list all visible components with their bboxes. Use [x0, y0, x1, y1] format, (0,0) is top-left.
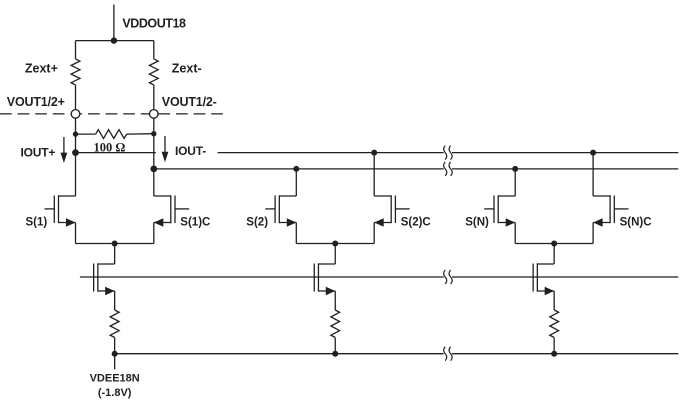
- node: 100 ohm right tap: [151, 131, 156, 136]
- transistor switch S(2)C (right of pair): [374, 195, 409, 243]
- wire: right branch VOUT node down to switch drain: [153, 118, 155, 196]
- resistor: cell 3 degeneration: [550, 310, 559, 338]
- wire: cell 2 tail down to cascode drain: [334, 244, 336, 265]
- svg-text:VOUT1/2-: VOUT1/2-: [162, 95, 217, 109]
- resistor: cell 1 degeneration: [110, 310, 119, 338]
- annotation arrow IOUT-: [162, 136, 169, 162]
- transistor: cell 2 cascode current source: [314, 263, 335, 295]
- transistor: cell 3 cascode current source: [533, 263, 554, 295]
- wire: VDEE18N rail right of break: [452, 353, 678, 355]
- svg-text:S(N)C: S(N)C: [620, 216, 652, 228]
- wire: cell 3 right branch from IOUT+ rail to switch drain: [592, 153, 594, 196]
- wire: Zext- to VOUT1/2- node: [153, 85, 155, 114]
- transistor switch S(1)C (right of pair): [154, 195, 189, 243]
- svg-text:VDDOUT18: VDDOUT18: [122, 17, 186, 31]
- break symbol on IOUT+ rail: [444, 146, 453, 160]
- svg-text:S(2): S(2): [246, 216, 268, 228]
- wire: VDEE18N supply stub: [114, 354, 116, 370]
- node: cell 2 tail junction: [332, 241, 338, 247]
- svg-text:Zext+: Zext+: [25, 62, 58, 76]
- wire: left branch VOUT node down to switch drain: [75, 118, 77, 196]
- wire: IOUT+ rail right of break: [452, 152, 678, 154]
- node: cell 2 right branch on IOUT+ rail: [371, 150, 377, 156]
- svg-text:Zext-: Zext-: [172, 62, 202, 76]
- wire: cell 3 left branch from IOUT- rail to switch drain: [514, 169, 516, 196]
- node: VDDOUT18 junction: [111, 37, 117, 43]
- wire: IOUT- rail from node to break: [154, 168, 444, 170]
- wire: cell 2 resistor to VDEE rail: [334, 338, 336, 354]
- wire: cell 3 resistor to VDEE rail: [553, 338, 555, 354]
- wire: top horizontal between Zext branches: [76, 40, 154, 42]
- wire: right branch VDD to Zext-: [153, 41, 155, 59]
- wire: IOUT- rail right of break: [452, 168, 678, 170]
- wire: cell 2 right branch from IOUT+ rail to switch drain: [373, 153, 375, 196]
- transistor: cell 1 cascode current source: [94, 263, 115, 295]
- wire: cell 3 tail down to cascode drain: [553, 244, 555, 265]
- node: cell 2 on VDEE rail: [332, 351, 338, 357]
- wire: cell 2 tail: [296, 243, 374, 245]
- break symbol on bias rail: [444, 270, 453, 284]
- svg-text:IOUT-: IOUT-: [175, 144, 206, 158]
- node: IOUT- rail start junction: [150, 166, 157, 173]
- resistor Zext+: [71, 59, 80, 85]
- wire: cell 2 cascode source down to resistor: [334, 291, 336, 310]
- node: cell 3 tail junction: [551, 241, 557, 247]
- node: cell 1 tail junction: [112, 241, 118, 247]
- svg-text:S(1)C: S(1)C: [180, 216, 210, 228]
- annotation arrow IOUT+: [61, 137, 68, 163]
- svg-text:(-1.8V): (-1.8V): [98, 387, 132, 399]
- node: cell 1 on VDEE rail: [112, 351, 118, 357]
- svg-text:S(2)C: S(2)C: [401, 216, 431, 228]
- wire: cell 1 tail: [76, 243, 154, 245]
- wire: IOUT+ rail segment from node to annotation gap: [76, 152, 156, 154]
- break symbol on VDEE18N rail: [444, 347, 453, 361]
- svg-text:VDEE18N: VDEE18N: [90, 373, 140, 385]
- wire: cell 3 tail: [515, 243, 593, 245]
- svg-text:S(1): S(1): [26, 216, 48, 228]
- node: IOUT+ rail start junction: [72, 149, 79, 156]
- wire: VDDOUT18 supply lead: [113, 5, 115, 41]
- wire: cascode gate bias rail left of break: [80, 276, 444, 278]
- wire: cascode gate bias rail right of break: [452, 276, 678, 278]
- node: 100 ohm left tap: [73, 131, 78, 136]
- wire: cell 1 tail down to cascode drain: [114, 244, 116, 265]
- node: cell 3 right branch on IOUT+ rail: [590, 150, 596, 156]
- transistor switch S(2) (left of pair): [265, 195, 296, 243]
- wire: cell 1 resistor to VDEE rail: [114, 338, 116, 354]
- node: cell 3 left branch on IOUT- rail: [512, 166, 518, 172]
- wire: left branch VDD to Zext+: [75, 41, 77, 59]
- wire: Zext+ to VOUT1/2+ node: [75, 85, 77, 114]
- transistor switch S(N)C (right of pair): [593, 195, 628, 243]
- svg-text:IOUT+: IOUT+: [21, 145, 56, 159]
- dashed output reference line: [0, 113, 228, 115]
- node VOUT1/2- (open circle): [150, 110, 159, 119]
- node: cell 3 on VDEE rail: [551, 351, 557, 357]
- wire: VDEE18N rail left of break: [115, 353, 444, 355]
- wire: cell 2 left branch from IOUT- rail to switch drain: [295, 169, 297, 196]
- svg-text:S(N): S(N): [465, 216, 489, 228]
- break symbol on IOUT- rail: [444, 162, 453, 176]
- transistor switch S(N) (left of pair): [484, 195, 515, 243]
- wire: IOUT+ rail continuing right: [218, 152, 444, 154]
- resistor: cell 2 degeneration: [331, 310, 340, 338]
- resistor Zext-: [149, 59, 158, 85]
- resistor R 100 ohm with leads: [76, 130, 154, 139]
- node VOUT1/2+ (open circle): [71, 110, 80, 119]
- svg-text:VOUT1/2+: VOUT1/2+: [7, 95, 65, 109]
- node: cell 2 left branch on IOUT- rail: [293, 166, 299, 172]
- wire: cell 3 cascode source down to resistor: [553, 291, 555, 310]
- transistor switch S(1) (left of pair): [45, 195, 76, 243]
- wire: cell 1 cascode source down to resistor: [114, 291, 116, 310]
